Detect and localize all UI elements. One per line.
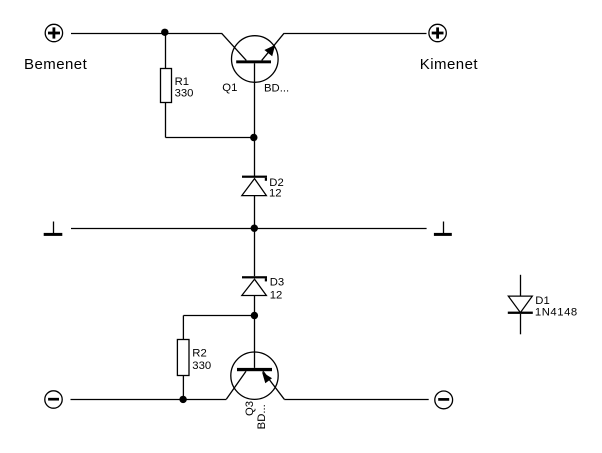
- junction Q3 base node: [251, 312, 258, 319]
- wire Q3 base down: [254, 316, 256, 368]
- wire R1 bottom: [165, 103, 167, 138]
- wire D1 cathode: [520, 314, 522, 334]
- terminal - output: [435, 391, 453, 409]
- junction bottom rail / R2: [179, 396, 186, 403]
- transistor Q1: [222, 33, 285, 82]
- resistor R1: [161, 69, 172, 103]
- svg-text:12: 12: [270, 290, 283, 302]
- svg-text:330: 330: [192, 360, 211, 372]
- svg-text:Q3: Q3: [244, 401, 256, 416]
- wire mid rail: [71, 228, 427, 230]
- wire mid rail to D3: [254, 229, 256, 277]
- wire R2 top: [182, 316, 184, 340]
- svg-text:BD...: BD...: [256, 404, 268, 429]
- svg-text:Q1: Q1: [222, 82, 237, 94]
- wire D1 anode: [520, 275, 522, 296]
- ground left: [44, 222, 63, 236]
- svg-text:1N4148: 1N4148: [535, 306, 578, 318]
- junction mid rail: [251, 225, 258, 232]
- terminal + output: [429, 24, 446, 41]
- junction Q1 base node: [250, 134, 257, 141]
- wire R1 to Q1 base node: [166, 137, 255, 139]
- wire node to R2: [183, 315, 254, 317]
- wire R1 top: [165, 34, 167, 69]
- wire D3 to Q3 base node: [254, 296, 256, 316]
- wire Q1 base down: [254, 63, 256, 137]
- svg-text:Kimenet: Kimenet: [420, 56, 479, 73]
- svg-text:R1: R1: [175, 76, 189, 88]
- wire D2 to mid rail: [254, 196, 256, 229]
- wire bottom rail right: [284, 399, 428, 401]
- svg-text:R2: R2: [192, 348, 206, 360]
- svg-text:330: 330: [175, 87, 194, 99]
- diode D1: [508, 296, 533, 314]
- wire R2 bottom: [182, 376, 184, 400]
- resistor R2: [177, 340, 189, 376]
- svg-text:12: 12: [269, 188, 282, 200]
- svg-text:Bemenet: Bemenet: [24, 56, 88, 73]
- svg-text:D1: D1: [535, 295, 549, 307]
- svg-text:D3: D3: [270, 276, 284, 288]
- junction top rail / R1: [161, 29, 168, 36]
- zener diode D2: [242, 176, 267, 196]
- wire top rail right: [284, 33, 426, 35]
- ground right: [434, 222, 452, 236]
- transistor Q3: [226, 352, 284, 399]
- terminal - input: [45, 391, 62, 408]
- terminal + input: [45, 24, 62, 41]
- svg-text:BD...: BD...: [264, 82, 289, 94]
- wire top rail left: [71, 33, 222, 35]
- wire node to D2: [254, 138, 256, 177]
- zener diode D3: [242, 276, 267, 295]
- wire bottom rail left: [71, 399, 227, 401]
